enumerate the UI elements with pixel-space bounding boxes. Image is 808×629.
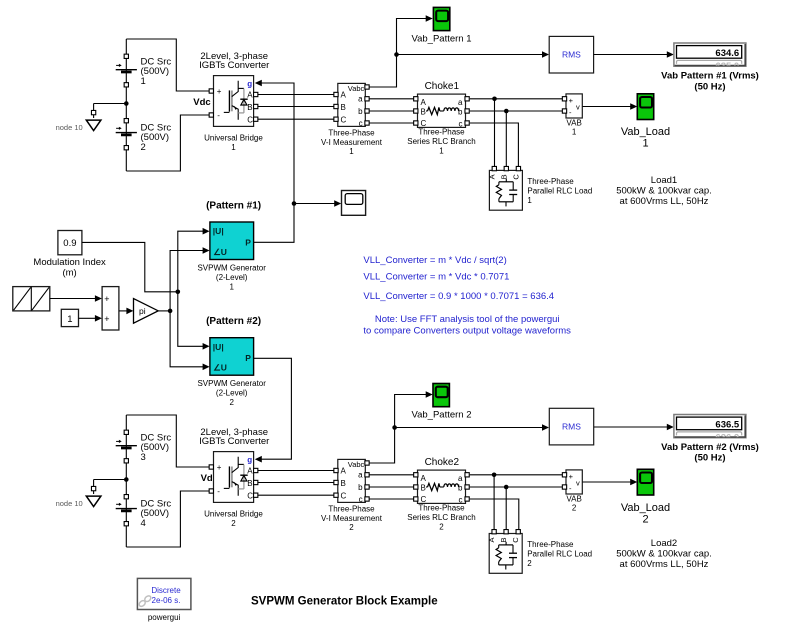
svg-text:A: A: [487, 174, 496, 179]
svg-text:Discrete: Discrete: [151, 586, 181, 595]
svg-text:a: a: [358, 95, 363, 104]
label Vab Pattern #2 (Vrms) (50 Hz): [661, 442, 759, 464]
pin A of Choke2: [414, 473, 418, 477]
wire battery2 bottom to bridge 1 - input: [126, 115, 209, 171]
pin A of U2: [254, 468, 258, 472]
svg-text:RMS: RMS: [562, 422, 581, 432]
svg-text:b: b: [358, 107, 363, 116]
pin c of V-I Measurement 2: [365, 497, 369, 501]
svg-text:636.5: 636.5: [715, 419, 739, 430]
svg-text:VAB: VAB: [566, 495, 581, 504]
wire bridge 2 C to V-I 2 C: [258, 494, 334, 496]
svg-text:2: 2: [229, 398, 234, 407]
repeating sequence block: [13, 287, 50, 311]
annotation Load2 text: [616, 538, 712, 570]
wire battery4 bottom to bridge 2 - input: [126, 491, 209, 547]
svg-text:Vab_Load: Vab_Load: [621, 502, 670, 514]
svg-text:to compare Converters output v: to compare Converters output voltage wav…: [363, 326, 571, 337]
pin A of V-I Measurement 2: [334, 468, 338, 472]
svg-text:|U|: |U|: [213, 226, 224, 236]
svg-text:2: 2: [439, 522, 444, 531]
svg-text:at 600Vrms LL, 50Hz: at 600Vrms LL, 50Hz: [620, 196, 709, 207]
svg-text:2: 2: [231, 519, 236, 528]
svg-text:-: -: [217, 487, 220, 496]
pin C of V-I Measurement 1: [334, 117, 338, 121]
svg-text:Vdc: Vdc: [193, 97, 210, 108]
junction battery midpoint group 1: [124, 101, 129, 106]
svg-text:a: a: [458, 474, 463, 483]
svg-text:at 600Vrms LL, 50Hz: at 600Vrms LL, 50Hz: [620, 559, 709, 570]
label of VAB 2: [566, 495, 581, 513]
pin a of Choke2: [465, 473, 469, 477]
svg-text:A: A: [247, 467, 253, 476]
display block showing 636.5: [674, 415, 746, 444]
pin C of RLC Load 2: [516, 530, 520, 534]
svg-text:Universal Bridge: Universal Bridge: [204, 134, 263, 143]
pin c of Choke1: [465, 121, 469, 125]
svg-text:v: v: [576, 479, 580, 488]
scope block Vab_Pattern 2: [433, 384, 449, 407]
junction battery midpoint group 2: [124, 477, 129, 482]
powergui block Discrete 2e-06 s: [137, 578, 191, 609]
pin A of U1: [254, 92, 258, 96]
svg-text:c: c: [359, 119, 363, 128]
svg-text:Universal Bridge: Universal Bridge: [204, 510, 263, 519]
svg-text:Parallel RLC Load: Parallel RLC Load: [527, 187, 592, 196]
svg-text:B: B: [421, 483, 426, 492]
junction Vabc1 tap to RMS 1: [394, 52, 399, 57]
label Modulation Index (m): [33, 257, 106, 279]
svg-text:∠U: ∠U: [213, 247, 227, 257]
svg-text:(Pattern #1): (Pattern #1): [206, 201, 261, 212]
svg-text:B: B: [341, 479, 346, 488]
svg-text:C: C: [511, 174, 520, 180]
svg-text:g: g: [247, 80, 252, 89]
pin c of V-I Measurement 1: [365, 121, 369, 125]
junction Choke1 a to load A: [492, 97, 497, 102]
svg-text:Three-Phase: Three-Phase: [418, 127, 465, 136]
pin C of RLC Load 1: [516, 166, 520, 170]
wire Choke2 b to VAB 2 -: [470, 486, 563, 488]
svg-text:500kW & 100kvar cap.: 500kW & 100kvar cap.: [616, 186, 712, 197]
wire to ground node group 2: [94, 479, 127, 481]
svg-text:+: +: [104, 294, 109, 304]
scope block Vab_Load 1: [637, 94, 653, 120]
voltage measurement block VAB 1: [566, 94, 582, 118]
wire V-I 1 a to Choke1 A: [369, 98, 414, 100]
svg-text:RMS: RMS: [562, 50, 581, 60]
SVPWM generator block 2 (SVPWM Generator (2-Level) 2): [210, 338, 254, 376]
svg-text:v: v: [576, 103, 580, 112]
pin a of V-I Measurement 2: [365, 473, 369, 477]
SVPWM generator block 1 (SVPWM Generator (2-Level) 1): [210, 222, 254, 260]
annotation VLL_Converter formulas: [363, 255, 554, 302]
wire down to RLC load 2 B: [505, 487, 507, 530]
wire bridge 2 B to V-I 2 B: [258, 482, 334, 484]
svg-text:A: A: [487, 537, 496, 542]
svg-text:V-I Measurement: V-I Measurement: [321, 138, 383, 147]
svg-text:Three-Phase: Three-Phase: [527, 540, 574, 549]
wire RMS 1 to display 1: [594, 54, 671, 56]
svg-text:+: +: [217, 87, 222, 96]
pin B of RLC Load 1: [504, 166, 508, 170]
wire battery column 3-4: [125, 415, 127, 547]
junction magnitude wire: [176, 290, 181, 295]
DC source B2 (DC Src (500V) 2): [116, 119, 172, 153]
pin C of Choke2: [414, 497, 418, 501]
wire angle to SVPWM 2 angle input: [170, 311, 206, 367]
svg-text:(Pattern #2): (Pattern #2): [206, 316, 261, 327]
svg-text:node 10: node 10: [56, 499, 83, 508]
svg-text:A: A: [341, 467, 347, 476]
constant block 0.9: [58, 231, 82, 255]
DC source B1 (DC Src (500V) 1): [116, 54, 172, 87]
display block showing 634.6: [674, 43, 746, 72]
svg-text:VAB: VAB: [566, 119, 581, 128]
svg-text:Parallel RLC Load: Parallel RLC Load: [527, 550, 592, 559]
svg-text:Three-Phase: Three-Phase: [527, 177, 574, 186]
svg-text:1: 1: [229, 283, 234, 292]
measurement block Three-Phase V-I Measurement 2: [338, 459, 366, 503]
wire down to RLC load 2 A: [493, 475, 495, 530]
constant block 1: [61, 309, 78, 326]
svg-text:Three-Phase: Three-Phase: [418, 503, 465, 512]
pin - of U2: [209, 489, 213, 493]
svg-text:3: 3: [141, 452, 146, 463]
wire battery3 top to bridge 2 + input: [126, 415, 209, 467]
junction SVPWM 1 P to scope: [292, 201, 297, 206]
wire SVPWM 2 P to bridge 2 gate: [254, 358, 292, 459]
wire bridge 1 B to V-I 1 B: [258, 106, 334, 108]
svg-text:Vab_Pattern 1: Vab_Pattern 1: [411, 34, 471, 45]
pin + of U1: [209, 89, 213, 93]
svg-text:Three-Phase: Three-Phase: [328, 504, 375, 513]
pin B of V-I Measurement 1: [334, 104, 338, 108]
measurement block Three-Phase V-I Measurement 1: [338, 83, 366, 127]
wire Vabc of V-I 1 to Vab_Pattern 1 scope: [369, 19, 429, 88]
svg-text:Modulation Index: Modulation Index: [33, 257, 106, 268]
svg-text:C: C: [341, 491, 347, 500]
pin A of RLC Load 1: [492, 166, 496, 170]
svg-text:A: A: [341, 91, 347, 100]
wire sum to gain pi: [119, 310, 130, 312]
scope block Vab_Pattern 1: [433, 7, 449, 30]
svg-text:A: A: [247, 91, 253, 100]
junction Choke1 b to load B: [504, 109, 509, 114]
svg-text:Choke1: Choke1: [425, 81, 460, 92]
svg-text:VLL_Converter = 0.9 * 1000 * 0: VLL_Converter = 0.9 * 1000 * 0.7071 = 63…: [363, 291, 554, 302]
wire angle to SVPWM 1 angle input: [170, 251, 206, 311]
svg-text:1: 1: [141, 76, 146, 87]
svg-text:1: 1: [231, 143, 236, 152]
wire down to RLC load 1 A: [494, 99, 496, 167]
pin - of VAB 2: [562, 485, 566, 489]
svg-text:b: b: [358, 483, 363, 492]
svg-text:2: 2: [527, 559, 532, 568]
wire V-I 2 b to Choke2 B: [369, 486, 414, 488]
wire Vabc of V-I 2 to Vab_Pattern 2 scope: [369, 395, 429, 464]
svg-text:SVPWM Generator: SVPWM Generator: [197, 379, 266, 388]
svg-text:1: 1: [349, 147, 354, 156]
svg-text:Choke2: Choke2: [425, 457, 460, 468]
svg-text:+: +: [104, 314, 109, 324]
wire junction to RMS 2 input: [395, 427, 546, 429]
svg-text:(2-Level): (2-Level): [216, 389, 248, 398]
svg-text:Load2: Load2: [651, 538, 677, 549]
svg-text:2: 2: [572, 504, 577, 513]
pin A of Choke1: [414, 97, 418, 101]
ground symbol G1 (node 10): [86, 104, 101, 131]
svg-text:g: g: [247, 456, 252, 465]
svg-text:B: B: [421, 107, 426, 116]
svg-text:pi: pi: [139, 306, 146, 316]
wire RMS 2 to display 2: [594, 426, 670, 428]
wire bridge 2 A to V-I 2 A: [258, 470, 334, 472]
pin + of VAB 1: [562, 97, 566, 101]
pin C of U1: [254, 117, 258, 121]
svg-text:A: A: [421, 98, 427, 107]
pin B of RLC Load 2: [504, 530, 508, 534]
svg-text:Series RLC Branch: Series RLC Branch: [407, 513, 475, 522]
wire VAB 2 to Vab_Load 2 scope: [583, 481, 634, 483]
svg-text:-: -: [217, 111, 220, 120]
scope block Vab_Load 2: [637, 469, 653, 495]
label of Three-Phase Parallel RLC Load 2: [527, 540, 592, 568]
parallel RLC load block Three-Phase Parallel RLC Load 2: [487, 534, 522, 574]
svg-text:634.6: 634.6: [715, 48, 739, 59]
svg-text:IGBTs Converter: IGBTs Converter: [199, 60, 269, 71]
pin B of U2: [254, 480, 258, 484]
wire magnitude to SVPWM 1 |U| input: [178, 231, 206, 292]
wire Choke2 a to VAB 2 +: [470, 474, 563, 476]
svg-text:C: C: [341, 115, 347, 124]
wire V-I 2 c to Choke2 C: [369, 498, 414, 500]
svg-text:Vabc: Vabc: [348, 460, 365, 469]
wire Choke1 a to VAB 1 +: [470, 98, 563, 100]
pin Vabc of V-I Measurement 1: [365, 85, 369, 89]
svg-text:1: 1: [572, 128, 577, 137]
svg-text:(50 Hz): (50 Hz): [694, 81, 725, 92]
pin b of V-I Measurement 2: [365, 485, 369, 489]
svg-text:B: B: [247, 103, 252, 112]
svg-text:Vab Pattern #1 (Vrms): Vab Pattern #1 (Vrms): [661, 71, 759, 82]
wire Choke2 c to RLC load 2 C: [470, 499, 519, 530]
svg-text:500kW & 100kvar cap.: 500kW & 100kvar cap.: [616, 549, 712, 560]
svg-text:Vab_Pattern 2: Vab_Pattern 2: [411, 410, 471, 421]
junction Choke2 a to load A: [492, 473, 497, 478]
annotation Load1 text: [616, 175, 712, 207]
wire V-I 1 c to Choke1 C: [369, 122, 414, 124]
svg-text:node 10: node 10: [56, 123, 83, 132]
RMS block 1: [549, 36, 593, 73]
pin B of Choke1: [414, 109, 418, 113]
svg-text:B: B: [341, 103, 346, 112]
svg-text:+: +: [569, 96, 574, 105]
wire bridge 1 A to V-I 1 A: [258, 94, 334, 96]
svg-text:Vab_Load: Vab_Load: [621, 126, 670, 138]
parallel RLC load block Three-Phase Parallel RLC Load 1: [487, 170, 522, 210]
pin - of U1: [209, 113, 213, 117]
DC source B4 (DC Src (500V) 4): [116, 495, 172, 529]
wire VAB 1 to Vab_Load 1 scope: [583, 106, 634, 108]
svg-text:Load1: Load1: [651, 175, 677, 186]
title annotation 2Level 3-phase IGBTs Converter (bridge 2): [199, 427, 269, 447]
pin c of Choke2: [465, 497, 469, 501]
pin - of VAB 1: [562, 109, 566, 113]
wire constant 1 to sum: [79, 317, 99, 319]
svg-text:+: +: [569, 472, 574, 481]
junction Choke2 b to load B: [504, 485, 509, 490]
wire gain output: [158, 310, 170, 312]
wire Choke1 c to RLC load 1 C: [470, 123, 519, 167]
svg-text:a: a: [458, 98, 463, 107]
label of Three-Phase Series RLC Branch 1: [407, 127, 475, 155]
label Vab_Load 2: [621, 502, 670, 525]
wire junction to RMS 1 input: [397, 54, 546, 56]
pin + of U2: [209, 465, 213, 469]
label of U1: [204, 134, 263, 153]
wire battery column 1-2: [125, 39, 127, 171]
DC source B3 (DC Src (500V) 3): [116, 430, 172, 463]
title annotation 2Level 3-phase IGBTs Converter (bridge 1): [199, 51, 269, 71]
svg-text:4: 4: [141, 518, 146, 529]
wire V-I 2 a to Choke2 A: [369, 474, 414, 476]
svg-text:C: C: [247, 115, 253, 124]
label of V-I Measurement 1: [321, 128, 383, 156]
RMS block 2: [549, 408, 593, 445]
label of Three-Phase Series RLC Branch 2: [407, 503, 475, 531]
wire SVPWM 1 P to bridge 1 gate: [254, 83, 294, 242]
svg-text:Vab Pattern #2 (Vrms): Vab Pattern #2 (Vrms): [661, 442, 759, 453]
svg-text:SVPWM Generator: SVPWM Generator: [197, 264, 266, 273]
wire repeating sequence to sum: [50, 298, 99, 300]
svg-text:+: +: [217, 463, 222, 472]
svg-text:a: a: [358, 471, 363, 480]
label of SVPWM Generator 1: [197, 264, 266, 292]
label of Three-Phase Parallel RLC Load 1: [527, 177, 592, 205]
pin C of V-I Measurement 2: [334, 493, 338, 497]
svg-text:P: P: [245, 353, 251, 363]
svg-text:2e-06 s.: 2e-06 s.: [152, 596, 181, 605]
svg-text:C: C: [511, 537, 520, 543]
pin C of Choke1: [414, 121, 418, 125]
svg-text:0.9: 0.9: [63, 238, 76, 249]
wire battery1 top to bridge 1 + input: [126, 39, 209, 91]
label Vab Pattern #1 (Vrms) (50 Hz): [661, 71, 759, 93]
svg-text:2: 2: [349, 523, 354, 532]
wire to ground node group 1: [94, 103, 127, 105]
wire 0.9 to magnitude junction: [82, 242, 178, 291]
pin A of V-I Measurement 1: [334, 92, 338, 96]
pin Vabc of V-I Measurement 2: [365, 461, 369, 465]
scope block (pattern scope): [342, 191, 366, 216]
svg-text:Series RLC Branch: Series RLC Branch: [407, 137, 475, 146]
svg-text:(50 Hz): (50 Hz): [694, 453, 725, 464]
pin B of U1: [254, 104, 258, 108]
label of SVPWM Generator 2: [197, 379, 266, 407]
junction angle wire: [168, 309, 173, 314]
pin a of V-I Measurement 1: [365, 97, 369, 101]
converter block U2 Universal Bridge 2: [214, 452, 254, 503]
svg-text:B: B: [499, 537, 508, 542]
svg-text:VLL_Converter = m * Vdc * 0.70: VLL_Converter = m * Vdc * 0.7071: [363, 272, 509, 283]
label of VAB 1: [566, 119, 581, 137]
pin + of VAB 2: [562, 473, 566, 477]
label of U2: [204, 510, 263, 529]
svg-text:B: B: [499, 174, 508, 179]
series RLC branch block Choke1 (Three-Phase Series RLC Branch 1): [418, 94, 466, 128]
svg-text:1: 1: [439, 146, 444, 155]
svg-text:VLL_Converter = m * Vdc / sqrt: VLL_Converter = m * Vdc / sqrt(2): [363, 255, 506, 266]
pin a of Choke1: [465, 97, 469, 101]
svg-text:1: 1: [527, 196, 532, 205]
svg-text:Three-Phase: Three-Phase: [328, 128, 375, 137]
pin b of Choke2: [465, 485, 469, 489]
svg-text:2: 2: [642, 514, 648, 526]
annotation Note FFT analysis: [363, 314, 571, 337]
wire bridge 1 C to V-I 1 C: [258, 118, 334, 120]
svg-text:SVPWM Generator Block Example: SVPWM Generator Block Example: [251, 595, 438, 607]
svg-text:|U|: |U|: [213, 342, 224, 352]
svg-text:1: 1: [67, 314, 72, 325]
label Vab_Load 1: [621, 126, 670, 149]
wire magnitude to SVPWM 2 |U| input: [178, 292, 206, 347]
voltage measurement block VAB 2: [566, 470, 582, 494]
svg-text:V-I Measurement: V-I Measurement: [321, 514, 383, 523]
svg-text:c: c: [359, 495, 363, 504]
wire junction to scope: [294, 203, 338, 205]
sum block: [102, 287, 119, 330]
pin C of U2: [254, 493, 258, 497]
svg-text:Vabc: Vabc: [348, 84, 365, 93]
converter block U1 Universal Bridge 1: [214, 76, 254, 127]
svg-text:C: C: [247, 491, 253, 500]
svg-text:2: 2: [141, 142, 146, 153]
svg-text:P: P: [245, 237, 251, 247]
junction Vabc2 tap to RMS 2: [392, 425, 397, 430]
wire Choke1 b to VAB 1 -: [470, 110, 563, 112]
svg-text:A: A: [421, 474, 427, 483]
label of V-I Measurement 2: [321, 504, 383, 532]
pin b of V-I Measurement 1: [365, 109, 369, 113]
gain block pi: [134, 299, 159, 324]
svg-text:Note: Use FFT analysis tool of: Note: Use FFT analysis tool of the power…: [375, 314, 560, 325]
svg-text:IGBTs Converter: IGBTs Converter: [199, 436, 269, 447]
wire down to RLC load 1 B: [505, 111, 507, 167]
series RLC branch block Choke2 (Three-Phase Series RLC Branch 2): [418, 470, 466, 504]
pin b of Choke1: [465, 109, 469, 113]
svg-text:(2-Level): (2-Level): [216, 273, 248, 282]
ground symbol G2 (node 10): [86, 480, 101, 507]
svg-text:∠U: ∠U: [213, 363, 227, 373]
svg-text:powergui: powergui: [148, 613, 181, 622]
wire V-I 1 b to Choke1 B: [369, 110, 414, 112]
svg-text:1: 1: [642, 138, 648, 150]
svg-text:(m): (m): [62, 267, 76, 278]
pin A of RLC Load 2: [492, 530, 496, 534]
pin B of V-I Measurement 2: [334, 480, 338, 484]
svg-text:B: B: [247, 479, 252, 488]
pin B of Choke2: [414, 485, 418, 489]
